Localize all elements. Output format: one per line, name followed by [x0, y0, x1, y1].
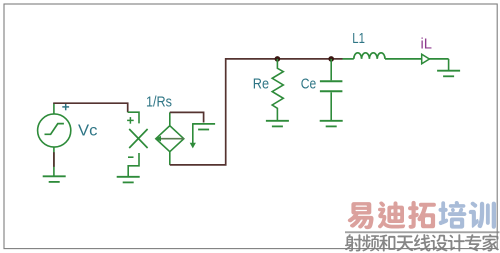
multiplier X [129, 129, 147, 148]
node junction dot at Ce [328, 56, 334, 62]
svg-text:iL: iL [421, 36, 433, 53]
polarity + at Vc [62, 104, 69, 111]
svg-text:Ce: Ce [301, 76, 317, 93]
ground (multiplier) [117, 177, 140, 183]
multiplier X bottom pin [128, 153, 139, 176]
wire (diamond bottom to top rail) [170, 59, 343, 165]
watermark underline [345, 231, 500, 233]
ground (Ce) [320, 121, 343, 127]
wire (diamond top to ground) [170, 112, 204, 122]
ground (Vc) [43, 176, 66, 182]
multiplier X top pin [128, 112, 139, 123]
voltage source Vc [38, 103, 71, 176]
node junction dot at Re [275, 56, 281, 62]
ground (Re) [266, 121, 289, 127]
svg-text:Vc: Vc [78, 123, 98, 140]
ground (output) [437, 71, 460, 77]
capacitor Ce [320, 59, 343, 120]
wire (Vc bottom lead dark segment) [53, 152, 55, 167]
svg-text:Re: Re [253, 76, 269, 93]
svg-text:1/Rs: 1/Rs [146, 93, 172, 110]
ground (controlled source) [192, 124, 215, 130]
wire (Vc top to multiplier) [53, 103, 128, 112]
inductor L1 [343, 53, 449, 59]
svg-text:L1: L1 [352, 30, 365, 47]
polarity - at multiplier [128, 156, 134, 158]
current direction arrow of controlled source [192, 124, 194, 143]
watermark logo text 易迪拓培训 [345, 201, 500, 252]
wire (L1 to right ground) [448, 59, 450, 70]
watermark slogan 射频和天线设计专家 [345, 234, 362, 251]
polarity + at multiplier [127, 117, 134, 124]
resistor Re [272, 59, 283, 120]
controlled source 1/Rs (diamond) [156, 112, 184, 164]
current probe arrow iL [422, 54, 430, 64]
